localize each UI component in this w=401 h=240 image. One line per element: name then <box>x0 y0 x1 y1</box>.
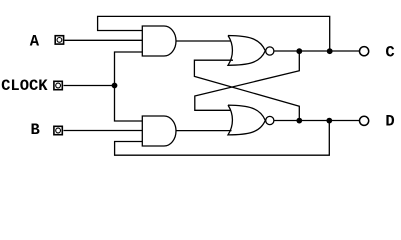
inversion bubble U4 <box>266 116 274 124</box>
input terminal CLOCK <box>54 81 62 89</box>
wire AND1 output to NOR1 input <box>176 40 231 42</box>
svg-text:CLOCK: CLOCK <box>1 77 48 95</box>
output terminal D <box>360 116 369 125</box>
wire NOR1 output to C <box>274 50 359 52</box>
input terminal B <box>54 126 62 134</box>
wire CLOCK to riser <box>64 85 115 87</box>
junction node Q3 <box>296 118 302 124</box>
AND gate U2 (bottom) <box>142 116 176 146</box>
wire A to AND1 <box>65 39 143 41</box>
input terminal A <box>55 36 63 44</box>
output terminal C <box>360 47 369 56</box>
inversion bubble U3 <box>266 47 274 55</box>
junction node Q2 <box>327 48 333 54</box>
wire cross-couple NOR1 out to NOR2 input <box>195 51 299 110</box>
AND gate U1 (top) <box>142 26 176 56</box>
svg-text:C: C <box>385 44 394 62</box>
wire NOR2 output to D <box>274 120 359 122</box>
junction node Q4 <box>326 118 332 124</box>
junction clock node <box>112 83 118 89</box>
wire B to AND2 <box>64 130 143 132</box>
wire cross-couple NOR2 out to NOR1 input <box>194 60 299 120</box>
svg-text:B: B <box>31 121 40 139</box>
wire clock riser to both AND gates <box>115 52 143 121</box>
NOR gate U4 (bottom) <box>228 105 265 135</box>
wire feedback D loop to AND2 bottom input <box>115 121 330 156</box>
svg-text:A: A <box>30 32 40 50</box>
junction node Q1 <box>296 48 302 54</box>
wire AND2 output to NOR2 input <box>176 130 232 132</box>
NOR gate U3 (top) <box>228 36 265 66</box>
wire feedback C loop to AND1 top input <box>98 16 330 51</box>
svg-text:D: D <box>385 113 394 131</box>
